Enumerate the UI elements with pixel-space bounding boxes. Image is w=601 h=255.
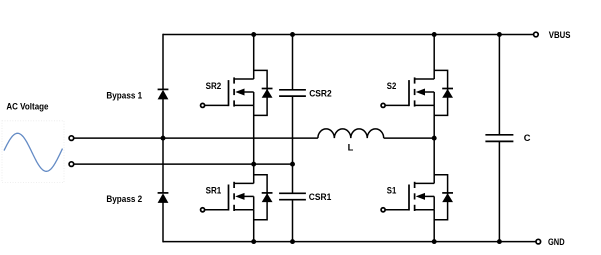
transistor SR2: gate terminal: [201, 103, 205, 107]
AC sine waveform: [4, 133, 63, 171]
svg-text:SR1: SR1: [206, 185, 222, 195]
transistor S1: body diode: [442, 192, 453, 194]
wire bypass column lower segment: [162, 202, 164, 242]
junction: S leg / inductor midpoint node: [432, 136, 437, 141]
junction: SR leg / top rail: [251, 32, 256, 37]
transistor SR1: drain tap: [234, 182, 254, 184]
wire CSR column: top rail to CSR2: [292, 35, 294, 90]
transistor S1: gate bar: [408, 185, 410, 211]
transistor SR2: drain tap: [234, 78, 254, 80]
junction: S leg / bottom rail: [432, 239, 437, 244]
svg-text:S1: S1: [387, 185, 397, 195]
transistor S1: gate lead wire: [385, 209, 409, 211]
junction: S leg / top rail: [432, 32, 437, 37]
transistor SR1: body diode branch wire: [254, 175, 267, 220]
junction: SR leg / AC line 2: [251, 162, 256, 167]
junction: SR leg / bottom rail: [251, 239, 256, 244]
transistor S2: body arrow: [416, 89, 425, 96]
junction: bypass column / AC line 1: [161, 136, 166, 141]
capacitor C: [485, 134, 513, 136]
wire bypass column upper segment: [162, 34, 164, 90]
svg-text:Bypass 2: Bypass 2: [106, 194, 142, 204]
junction: CSR column / bottom rail: [290, 239, 295, 244]
transistor SR2: gate lead wire: [205, 104, 229, 106]
transistor S2: gate lead wire: [385, 104, 409, 106]
junction: CSR column / top rail: [290, 32, 295, 37]
wire top rail (VBUS): [163, 34, 534, 36]
junction: CSR column / AC line 2: [290, 162, 295, 167]
transistor S2: body diode: [442, 88, 453, 90]
transistor SR1: gate bar: [228, 185, 230, 211]
transistor SR2: body arrow: [235, 89, 244, 96]
transistor S2: drain tap: [415, 78, 435, 80]
transistor S1: source tap: [415, 209, 435, 211]
svg-text:SR2: SR2: [206, 81, 222, 91]
transistor SR1: source tap: [234, 209, 254, 211]
wire bottom rail (GND): [163, 241, 536, 243]
wire SR leg: SR1 source to bottom rail: [253, 210, 255, 242]
junction: C column / bottom rail: [497, 239, 502, 244]
transistor S1: body arrow: [416, 193, 425, 200]
wire SR leg: AC line 2 node to SR1 drain: [253, 164, 255, 183]
inductor L: [318, 129, 384, 138]
capacitor CSR2: [279, 89, 306, 91]
diode Bypass 2: [158, 192, 169, 194]
transistor SR1: body arrow: [235, 193, 244, 200]
transistor SR1: body diode: [262, 192, 273, 194]
wire SR leg: top rail to SR2 drain: [253, 35, 255, 80]
transistor S1: channel segments: [414, 182, 416, 188]
svg-text:Bypass 1: Bypass 1: [106, 90, 142, 100]
AC terminal 2: [69, 162, 74, 167]
transistor SR1: gate terminal: [201, 208, 205, 212]
transistor S2: gate bar: [408, 80, 410, 106]
transistor SR2: body diode branch wire: [254, 70, 267, 115]
transistor SR2: source tap: [234, 104, 254, 106]
terminal VBUS: [534, 32, 539, 37]
transistor S1: body diode branch wire: [434, 175, 447, 220]
svg-text:GND: GND: [548, 237, 565, 247]
transistor SR2: gate bar: [228, 80, 230, 106]
wire S leg: S1 source to bottom rail: [433, 210, 435, 242]
svg-text:AC Voltage: AC Voltage: [6, 101, 48, 111]
svg-text:S2: S2: [387, 81, 397, 91]
wire AC line 1 (terminal 1 to inductor): [74, 137, 318, 139]
wire C column: C to bottom rail: [498, 141, 500, 241]
svg-text:VBUS: VBUS: [549, 30, 571, 40]
diode Bypass 1: [158, 88, 169, 90]
transistor S2: gate terminal: [381, 103, 385, 107]
terminal GND: [536, 239, 541, 244]
transistor SR2: body diode: [262, 88, 273, 90]
transistor S1: gate terminal: [381, 208, 385, 212]
wire C column: top rail to C: [498, 35, 500, 135]
transistor SR1: gate lead wire: [205, 209, 229, 211]
junction: C column / top rail: [497, 32, 502, 37]
wire CSR column: CSR2 to CSR1: [292, 96, 294, 193]
transistor SR2: channel segments: [233, 77, 235, 83]
AC terminal 1: [69, 136, 74, 141]
transistor S2: source tap: [415, 104, 435, 106]
capacitor CSR1: [279, 192, 306, 194]
wire S leg: S2 source to midpoint node: [433, 105, 435, 138]
transistor S2: body diode branch wire: [434, 70, 447, 115]
transistor SR1: channel segments: [233, 182, 235, 188]
svg-text:CSR1: CSR1: [309, 192, 332, 202]
svg-text:C: C: [524, 133, 531, 143]
wire bypass column middle segment: [162, 99, 164, 193]
wire S leg: top rail to S2 drain: [433, 35, 435, 80]
wire SR leg: SR2 source to AC line 2 node: [253, 105, 255, 164]
transistor S2: channel segments: [414, 77, 416, 83]
AC source box: [2, 121, 64, 183]
wire AC line 2 (terminal 2 to CSR column): [74, 163, 293, 165]
wire CSR column: CSR1 to bottom rail: [292, 200, 294, 242]
wire S leg: midpoint node to S1 drain: [433, 138, 435, 183]
transistor S1: drain tap: [415, 182, 435, 184]
svg-text:CSR2: CSR2: [309, 88, 332, 98]
wire inductor to S-leg midpoint: [384, 137, 435, 139]
svg-text:L: L: [348, 143, 354, 153]
